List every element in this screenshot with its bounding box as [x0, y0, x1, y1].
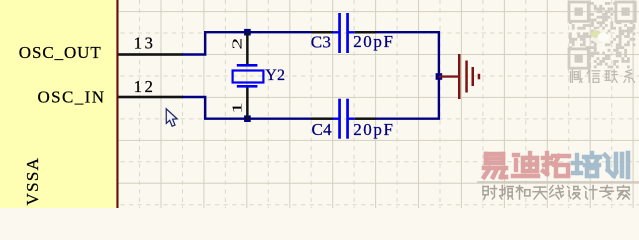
watermark title 易迪拓培训: [484, 153, 628, 177]
svg-text:VSSA: VSSA: [23, 157, 42, 206]
ground bar 2: [465, 61, 468, 93]
capacitor C4 right plate: [346, 99, 349, 139]
capacitor C3 left plate: [338, 13, 341, 53]
wire top bus right segment: [376, 32, 439, 76]
svg-text:OSC_IN: OSC_IN: [38, 87, 106, 106]
pin 13 lead: [119, 53, 183, 56]
capacitor C4 right stub: [349, 118, 355, 120]
ground stub wire: [439, 75, 459, 77]
svg-text:13: 13: [134, 34, 156, 53]
capacitor C3 right stub: [349, 31, 355, 33]
pin 12 lead: [119, 96, 183, 99]
ground bar 3: [472, 67, 475, 86]
ground bar 4: [478, 74, 481, 80]
svg-text:OSC_OUT: OSC_OUT: [19, 43, 102, 62]
wire bottom bus right segment: [376, 77, 439, 119]
wire top bus: [204, 31, 312, 33]
crystal Y2 pin 1 lead: [246, 87, 249, 121]
capacitor C4 left stub: [333, 118, 339, 120]
junction right bus / ground: [436, 73, 443, 80]
junction top bus / Y2 pin 2: [244, 29, 251, 36]
crystal Y2 body rectangle: [233, 71, 264, 83]
junction bottom bus / Y2 pin 1: [244, 115, 251, 122]
watermark underline: [477, 181, 639, 183]
svg-text:20pF: 20pF: [353, 32, 394, 51]
capacitor C4 right pin: [355, 117, 376, 120]
svg-text:C4: C4: [312, 120, 333, 139]
watermark QR code: [569, 2, 635, 68]
svg-text:C3: C3: [311, 32, 331, 51]
capacitor C3 right pin: [355, 31, 376, 34]
svg-text:1: 1: [230, 102, 245, 114]
watermark caption 微信联系: [571, 70, 635, 83]
svg-text:12: 12: [134, 77, 156, 96]
capacitor C4 left plate: [338, 99, 341, 139]
capacitor C3 left stub: [333, 31, 339, 33]
crystal Y2 top plate: [237, 64, 258, 67]
wire pin13 to top bus: [182, 32, 205, 54]
wire bottom bus: [204, 117, 312, 119]
IC body (part outline, left): [0, 0, 119, 208]
svg-text:20pF: 20pF: [353, 120, 394, 139]
svg-text:2: 2: [230, 38, 245, 50]
capacitor C3 left pin: [312, 31, 333, 34]
wire pin12 to bottom bus: [182, 97, 205, 119]
svg-text:Y2: Y2: [265, 67, 285, 84]
ground bar 1: [458, 54, 461, 99]
crystal Y2 pin 2 lead: [246, 32, 249, 65]
capacitor C3 right plate: [346, 13, 349, 53]
mouse cursor: [166, 109, 177, 126]
capacitor C4 left pin: [312, 117, 333, 120]
crystal Y2 bottom plate: [237, 85, 258, 88]
watermark subtitle 射频和天线设计专家: [483, 186, 630, 200]
